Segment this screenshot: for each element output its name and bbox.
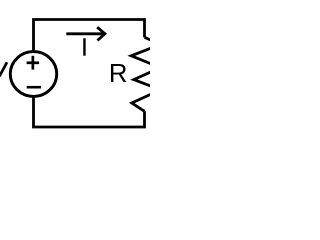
svg-text:R: R <box>109 60 128 88</box>
wire top <box>34 20 145 51</box>
label I <box>83 38 85 56</box>
label V (clipped at left edge) <box>0 62 7 76</box>
current arrow I <box>66 27 105 40</box>
wire bottom <box>34 97 145 127</box>
minus sign <box>27 86 41 89</box>
resistor R <box>131 37 160 111</box>
plus sign <box>27 56 39 70</box>
voltage source V1 <box>10 52 56 97</box>
